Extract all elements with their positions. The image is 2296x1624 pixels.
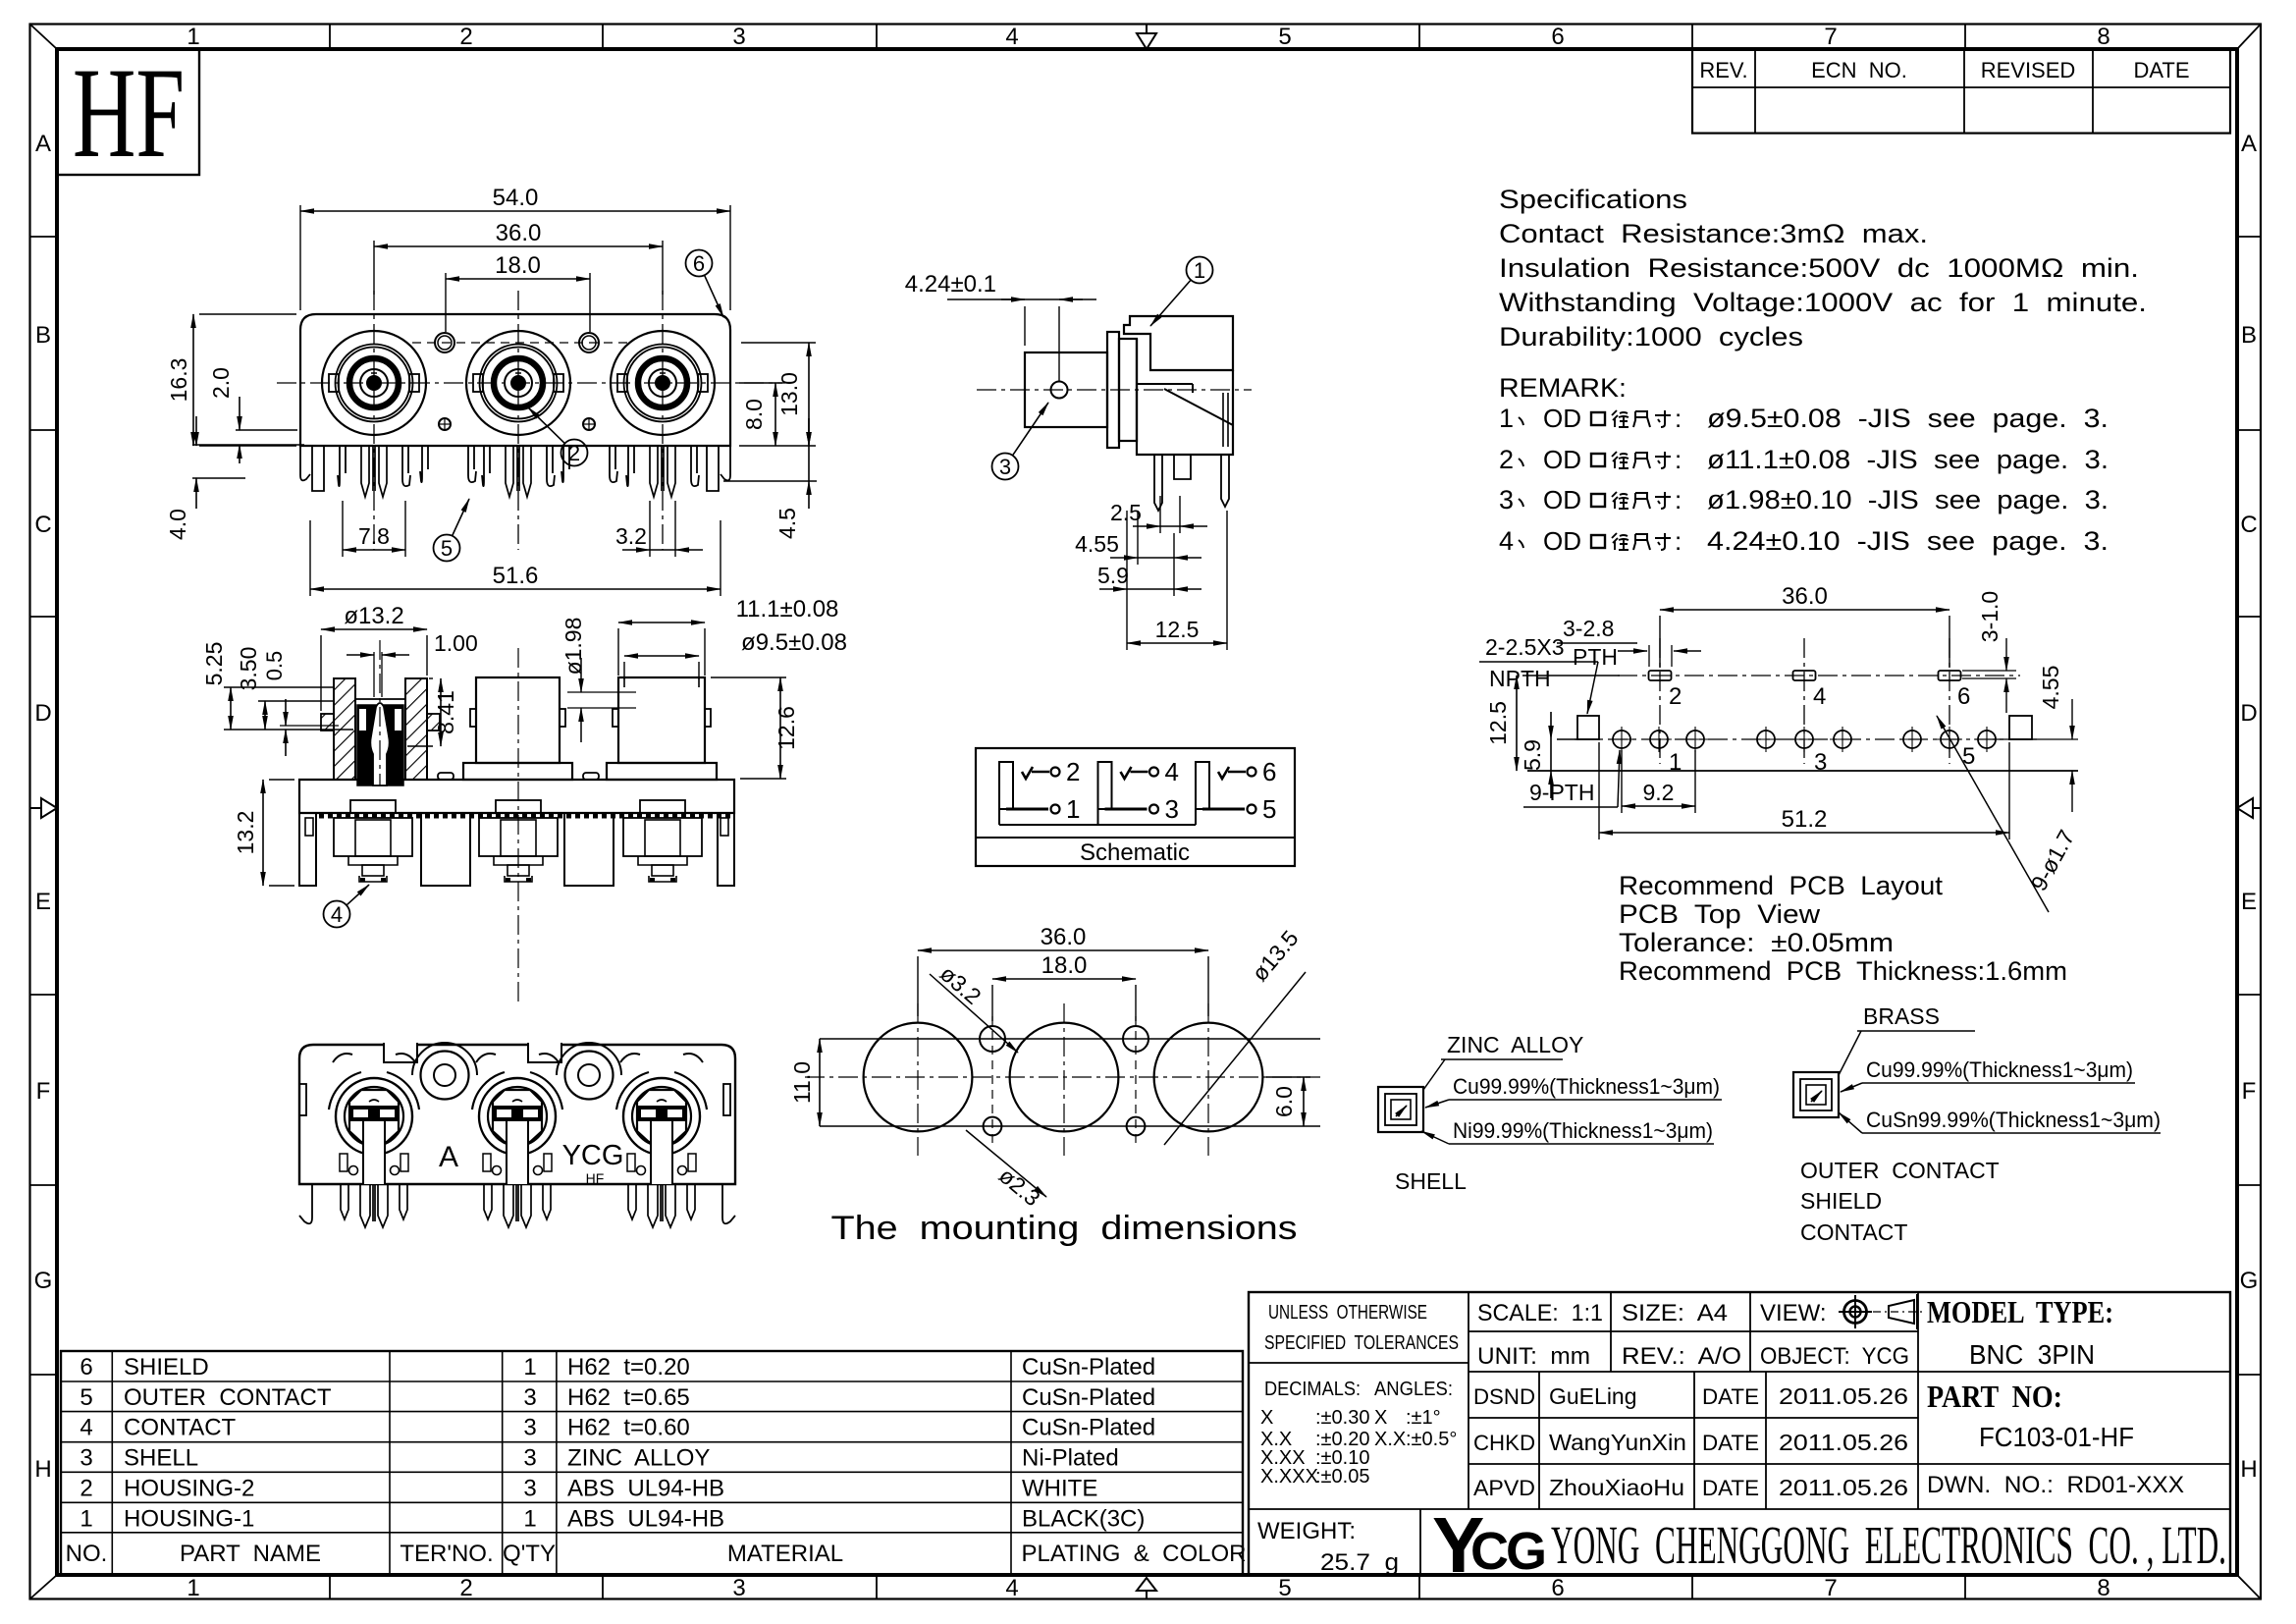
svg-text:HF: HF: [73, 40, 185, 185]
svg-text:2011.05.26: 2011.05.26: [1779, 1475, 1908, 1500]
svg-text:2.0: 2.0: [208, 367, 234, 399]
svg-text:13.2: 13.2: [233, 811, 258, 855]
svg-text:ZINC ALLOY: ZINC ALLOY: [1447, 1032, 1583, 1057]
svg-text:CG: CG: [1470, 1522, 1544, 1581]
svg-text::±0.30: :±0.30: [1315, 1407, 1369, 1429]
section view shield can 2: [479, 800, 558, 882]
mounting circle 1 vertical centerline: [917, 1003, 919, 1156]
mounting dimension 18.0: [992, 952, 1136, 1021]
svg-text:12.6: 12.6: [774, 706, 799, 750]
svg-text:MODEL TYPE:: MODEL TYPE:: [1927, 1294, 2113, 1329]
schematic jack 1 pins 1-2: [999, 757, 1080, 824]
svg-text:2: 2: [80, 1475, 92, 1501]
top view BNC port 3: [611, 331, 715, 435]
svg-text:5.9: 5.9: [1520, 739, 1545, 771]
remark line 2 OD aperture size: [1499, 445, 2109, 474]
svg-text:UNLESS OTHERWISE: UNLESS OTHERWISE: [1268, 1302, 1427, 1324]
svg-text:3: 3: [80, 1445, 92, 1472]
top view mounting hole d3.2 at x600: [579, 333, 599, 352]
section view barrel 1 centerline: [379, 640, 381, 785]
svg-text:DECIMALS:: DECIMALS:: [1264, 1379, 1361, 1400]
svg-text:H: H: [34, 1456, 51, 1483]
svg-text:YCG: YCG: [562, 1140, 624, 1171]
svg-text:4.24±0.1: 4.24±0.1: [905, 271, 996, 298]
dimension 7.8: [343, 501, 405, 557]
side view centerline: [977, 389, 1252, 391]
svg-text:SHELL: SHELL: [124, 1445, 198, 1472]
pcb hole 8: [1937, 727, 1962, 752]
pcb slot 2: [1649, 671, 1672, 680]
svg-text:Recommend PCB Thickness:1.6m: Recommend PCB Thickness:1.6mm: [1619, 956, 2067, 986]
svg-text:8.0: 8.0: [741, 399, 767, 430]
title part no: [1927, 1379, 2134, 1452]
svg-text:5: 5: [1278, 24, 1291, 50]
pcb label 9-PTH: [1523, 750, 1620, 807]
mounting circle 3 vertical centerline: [1207, 1003, 1209, 1156]
plating diagram shell: [1378, 1032, 1722, 1194]
svg-text:SHIELD: SHIELD: [1800, 1188, 1882, 1214]
title company name: [1432, 1501, 2226, 1589]
svg-text:18.0: 18.0: [495, 252, 541, 279]
title unit rev object: [1477, 1343, 1909, 1370]
svg-text:SIZE: A4: SIZE: A4: [1622, 1300, 1728, 1326]
svg-text:OD: OD: [1543, 526, 1581, 556]
svg-text:HOUSING-1: HOUSING-1: [124, 1505, 254, 1532]
svg-text:1: 1: [523, 1354, 536, 1380]
svg-text:ZINC ALLOY: ZINC ALLOY: [567, 1445, 710, 1472]
svg-text:3: 3: [523, 1415, 536, 1441]
rear view port shell 2: [472, 1054, 562, 1184]
svg-text:1: 1: [1066, 794, 1080, 824]
svg-text:OUTER CONTACT: OUTER CONTACT: [124, 1384, 332, 1411]
dimension d1.98: [561, 618, 636, 742]
parts table row 2 HOUSING-2: [80, 1475, 1097, 1501]
svg-text:51.6: 51.6: [493, 563, 539, 589]
svg-text:SPECIFIED TOLERANCES: SPECIFIED TOLERANCES: [1264, 1332, 1459, 1354]
svg-text:HOUSING-2: HOUSING-2: [124, 1475, 254, 1501]
centering arrow top: [1137, 25, 1156, 50]
rear view port shell 1: [329, 1054, 419, 1184]
pcb hole 6: [1830, 727, 1855, 752]
svg-text:1: 1: [523, 1505, 536, 1532]
balloon 1: [1150, 257, 1213, 327]
svg-text:CuSn-Plated: CuSn-Plated: [1022, 1354, 1155, 1380]
dimension 13.0: [739, 343, 816, 446]
mounting big circle 1: [864, 1023, 973, 1132]
svg-text:ø1.98: ø1.98: [561, 618, 586, 676]
svg-text:Recommend PCB Layout: Recommend PCB Layout: [1619, 871, 1944, 900]
svg-text:36.0: 36.0: [1782, 583, 1828, 610]
svg-text:X.XXX: X.XXX: [1260, 1466, 1318, 1488]
svg-text:PLATING & COLOR: PLATING & COLOR: [1022, 1541, 1247, 1567]
rear view marking HF: [586, 1170, 605, 1186]
pcb layout notes: [1619, 871, 2067, 986]
top view body outline: [300, 314, 730, 446]
dimension 2.5: [1110, 496, 1207, 533]
svg-text:Ni-Plated: Ni-Plated: [1022, 1445, 1119, 1472]
section view lower housing: [299, 813, 734, 886]
svg-text:X: X: [1260, 1407, 1273, 1429]
svg-text:DATE: DATE: [1702, 1384, 1759, 1409]
svg-text:Specifications: Specifications: [1499, 185, 1687, 214]
svg-text:2011.05.26: 2011.05.26: [1779, 1383, 1908, 1409]
svg-text::±0.5°: :±0.5°: [1406, 1429, 1457, 1450]
svg-text:OD: OD: [1543, 404, 1581, 433]
dimension 5.25: [201, 642, 353, 730]
svg-text:REV.: REV.: [1699, 58, 1747, 82]
dimension 12.6: [711, 677, 799, 779]
svg-text:6: 6: [1262, 757, 1276, 786]
svg-text:DSND: DSND: [1473, 1384, 1535, 1409]
svg-text:B: B: [35, 322, 51, 349]
svg-text:MATERIAL: MATERIAL: [727, 1541, 843, 1567]
svg-text:54.0: 54.0: [493, 185, 539, 211]
pcb column centerline 3: [1949, 638, 1950, 764]
svg-text:F: F: [36, 1078, 51, 1105]
svg-text:4: 4: [1813, 683, 1826, 710]
svg-text:3: 3: [732, 1575, 745, 1601]
balloon 2: [528, 407, 588, 466]
mounting dimension 11.0: [789, 1039, 820, 1126]
svg-text:Cu99.99%(Thickness1~3μm): Cu99.99%(Thickness1~3μm): [1866, 1057, 2133, 1082]
title weight: [1257, 1518, 1399, 1576]
svg-text:13.0: 13.0: [776, 372, 802, 416]
svg-text:WEIGHT:: WEIGHT:: [1257, 1518, 1356, 1544]
svg-text:B: B: [2241, 322, 2257, 349]
svg-text:4.55: 4.55: [2038, 666, 2063, 710]
svg-text::: :: [1675, 526, 1682, 556]
top view BNC port 1: [322, 331, 426, 435]
svg-text:4.0: 4.0: [165, 509, 190, 540]
centering arrow right: [2237, 798, 2261, 818]
svg-text:CuSn-Plated: CuSn-Plated: [1022, 1384, 1155, 1411]
schematic jack 2 pins 3-4: [1098, 757, 1179, 824]
specifications text block: [1499, 185, 2147, 352]
mounting label d2.3: [966, 1130, 1046, 1211]
dimension 4.0: [165, 416, 304, 540]
pcb label 2-2.5X3 NPTH: [1479, 634, 1598, 714]
svg-text:3: 3: [1165, 794, 1179, 824]
pcb dimension 4.55: [1993, 666, 2078, 812]
svg-text:A: A: [35, 131, 51, 157]
svg-text:SHIELD: SHIELD: [124, 1354, 209, 1380]
svg-text:ZhouXiaoHu: ZhouXiaoHu: [1549, 1475, 1684, 1500]
svg-text:Durability:1000 cycles: Durability:1000 cycles: [1499, 322, 1803, 352]
svg-text:2: 2: [1499, 445, 1514, 474]
mounting dimension 36.0: [918, 924, 1208, 1016]
dimension 3.2: [615, 501, 703, 557]
svg-text:PTH: PTH: [1573, 644, 1618, 670]
svg-text:BNC 3PIN: BNC 3PIN: [1969, 1339, 2095, 1370]
title apvd row: [1473, 1475, 1908, 1500]
svg-text:Ni99.99%(Thickness1~3μm): Ni99.99%(Thickness1~3μm): [1453, 1118, 1713, 1143]
pcb hole 5: [1791, 727, 1817, 752]
svg-text:6.0: 6.0: [1271, 1086, 1297, 1117]
svg-text:3: 3: [1499, 485, 1514, 514]
dimension 2.0: [208, 367, 297, 463]
mounting bottom reference line: [820, 1125, 1320, 1127]
svg-text:5: 5: [441, 536, 453, 561]
top view mounting hole d3.2 at x453: [435, 333, 454, 352]
svg-text:36.0: 36.0: [1041, 924, 1087, 950]
svg-text:2: 2: [1066, 757, 1080, 786]
section view barrel 2: [463, 677, 572, 780]
parts table row 3 SHELL: [80, 1445, 1118, 1472]
svg-text:9.2: 9.2: [1643, 780, 1675, 805]
dimension 0.5: [262, 651, 339, 756]
svg-text:A: A: [2241, 131, 2257, 157]
pcb label 3-2.8 PTH: [1557, 616, 1701, 670]
svg-text:12.5: 12.5: [1485, 701, 1511, 745]
svg-text:DATE: DATE: [1702, 1476, 1759, 1500]
svg-text:Q'TY: Q'TY: [503, 1541, 556, 1567]
pcb hole 4: [1753, 727, 1779, 752]
top view small hole d2.3 at x453: [439, 418, 451, 430]
pcb hole 9: [1974, 727, 2000, 752]
svg-text::±1°: :±1°: [1406, 1407, 1441, 1429]
top view port 2 vertical centerline: [517, 291, 519, 550]
svg-text:ø1.98±0.10 -JIS see page.: ø1.98±0.10 -JIS see page. 3.: [1707, 485, 2109, 514]
svg-text:UNIT: mm: UNIT: mm: [1477, 1343, 1590, 1370]
svg-text:7: 7: [1824, 1575, 1837, 1601]
svg-text:ø13.2: ø13.2: [344, 603, 403, 629]
svg-text:4.24±0.10 -JIS see page. 3: 4.24±0.10 -JIS see page. 3.: [1707, 526, 2109, 556]
title block grid: [1249, 1292, 2230, 1575]
pcb board edge line: [1527, 770, 2078, 772]
pcb slot 6: [1939, 671, 1961, 680]
svg-text:3.2: 3.2: [615, 523, 647, 549]
svg-text:4.5: 4.5: [774, 508, 800, 539]
plating diagram brass: [1793, 1003, 2161, 1245]
mounting hole column centerline x1011: [991, 1016, 993, 1149]
svg-text:2: 2: [1669, 683, 1682, 710]
svg-text:36.0: 36.0: [496, 220, 542, 246]
svg-text:BLACK(3C): BLACK(3C): [1022, 1505, 1145, 1532]
balloon 4: [324, 885, 370, 928]
remark heading: [1499, 373, 1627, 403]
dimension 8.41: [407, 678, 458, 746]
section view shield can 1: [334, 800, 412, 882]
svg-text:REV.: A/O: REV.: A/O: [1622, 1343, 1741, 1370]
svg-text:5: 5: [1962, 743, 1975, 770]
svg-text:6: 6: [693, 251, 705, 276]
svg-text:E: E: [2241, 889, 2257, 915]
parts table row 6 SHIELD: [80, 1354, 1155, 1380]
dimension 4.55: [1075, 511, 1201, 565]
svg-text:HF: HF: [586, 1170, 605, 1186]
svg-text:4: 4: [1005, 1575, 1018, 1601]
svg-text:The mounting dimensions: The mounting dimensions: [831, 1210, 1298, 1247]
svg-text:OD: OD: [1543, 445, 1581, 474]
svg-text:DWN. NO.: RD01-XXX: DWN. NO.: RD01-XXX: [1927, 1472, 2184, 1498]
svg-text:YONG CHENGGONG ELECTRONICS: YONG CHENGGONG ELECTRONICS CO. , LTD.: [1551, 1515, 2226, 1575]
svg-text:11.1±0.08: 11.1±0.08: [736, 596, 839, 623]
pcb dimension 3-1.0: [1962, 591, 2016, 713]
svg-text:ø11.1±0.08 -JIS see page.: ø11.1±0.08 -JIS see page. 3.: [1707, 445, 2109, 474]
svg-text:5: 5: [80, 1384, 92, 1411]
svg-text:OUTER CONTACT: OUTER CONTACT: [1800, 1158, 2000, 1183]
svg-text:4: 4: [1499, 526, 1514, 556]
svg-text:1: 1: [1499, 404, 1514, 433]
svg-text:7: 7: [1824, 24, 1837, 50]
dimension 4.5: [723, 418, 817, 539]
mounting label d13.5: [1164, 925, 1306, 1145]
svg-text:ø9.5±0.08 -JIS see page. 3: ø9.5±0.08 -JIS see page. 3.: [1707, 404, 2109, 433]
svg-text:CuSn99.99%(Thickness1~3μm): CuSn99.99%(Thickness1~3μm): [1866, 1108, 2161, 1132]
dimension 3.50: [236, 647, 334, 730]
dimension 11.1+-0.08: [618, 596, 838, 676]
svg-text:1: 1: [1194, 258, 1205, 283]
svg-text:ABS UL94-HB: ABS UL94-HB: [567, 1505, 724, 1532]
svg-text:E: E: [35, 889, 51, 915]
parts table header: [66, 1541, 1247, 1567]
dimension d13.2: [321, 603, 427, 711]
svg-text:6: 6: [80, 1354, 92, 1380]
balloon 6: [686, 250, 724, 318]
mounting label d3.2: [930, 960, 1018, 1053]
svg-text:11.0: 11.0: [789, 1061, 815, 1104]
parts table row 5 OUTER CONTACT: [80, 1384, 1155, 1411]
revision table: [1692, 49, 2230, 134]
rear view body outline: [299, 1043, 735, 1184]
rear view marking A: [439, 1141, 458, 1173]
svg-text:REMARK:: REMARK:: [1499, 373, 1627, 403]
pcb dimension 36.0: [1660, 583, 1949, 668]
pcb hole 7: [1899, 727, 1925, 752]
pcb dimension 12.5: [1485, 676, 1620, 771]
svg-text:H62 t=0.60: H62 t=0.60: [567, 1415, 690, 1441]
balloon 5: [434, 499, 470, 562]
pcb hole 3: [1682, 727, 1708, 752]
svg-text:SHELL: SHELL: [1395, 1168, 1467, 1194]
pcb dimension 51.2: [1599, 742, 2009, 839]
remark line 4 OD aperture size: [1499, 526, 2109, 556]
svg-text:9-PTH: 9-PTH: [1529, 780, 1594, 805]
section view shield can 3: [623, 800, 702, 882]
svg-text:ø9.5±0.08: ø9.5±0.08: [741, 629, 847, 656]
centering arrow bottom: [1137, 1578, 1156, 1599]
svg-text:H62 t=0.20: H62 t=0.20: [567, 1354, 690, 1380]
dimension d9.5+-0.08: [624, 629, 847, 679]
svg-text:CONTACT: CONTACT: [124, 1415, 237, 1441]
svg-text:Tolerance: ±0.05mm: Tolerance: ±0.05mm: [1619, 928, 1894, 957]
mounting big circle 2: [1010, 1023, 1119, 1132]
svg-text:51.2: 51.2: [1782, 806, 1828, 833]
svg-text:FC103-01-HF: FC103-01-HF: [1979, 1422, 2134, 1452]
svg-text:D: D: [2240, 700, 2257, 727]
pcb column centerline 2: [1803, 638, 1805, 764]
section view barrel 1 sectioned: [321, 678, 440, 785]
mounting small hole bottom x1011: [984, 1117, 1002, 1136]
top view upper hole centerline: [412, 342, 628, 344]
svg-text:CuSn-Plated: CuSn-Plated: [1022, 1415, 1155, 1441]
centering arrow left: [30, 798, 58, 818]
svg-text:CHKD: CHKD: [1473, 1431, 1535, 1455]
svg-text:Schematic: Schematic: [1080, 839, 1190, 866]
top view BNC port 2: [466, 331, 570, 435]
rear view boss hole 1: [412, 1043, 477, 1100]
HF logo box: [57, 49, 199, 175]
top view port 1 vertical centerline: [373, 291, 375, 550]
svg-text:X.X: X.X: [1374, 1429, 1406, 1450]
svg-text:1: 1: [80, 1505, 92, 1532]
pcb pad numbers: [1669, 683, 1975, 776]
svg-text:WangYunXin: WangYunXin: [1549, 1430, 1686, 1455]
pcb slot 4: [1793, 671, 1816, 680]
svg-text:WHITE: WHITE: [1022, 1475, 1097, 1501]
svg-text:3: 3: [523, 1445, 536, 1472]
svg-text:C: C: [2240, 512, 2257, 538]
svg-text:ABS UL94-HB: ABS UL94-HB: [567, 1475, 724, 1501]
dimension 36.0: [374, 220, 663, 295]
svg-text:16.3: 16.3: [166, 358, 191, 403]
svg-text:12.5: 12.5: [1155, 617, 1200, 642]
side view connector body: [1025, 316, 1233, 455]
svg-text:5.9: 5.9: [1097, 563, 1129, 588]
mounting dimension 6.0: [1266, 1077, 1310, 1126]
rear view boss hole 2: [557, 1043, 621, 1100]
top view small hole d2.3 at x600: [583, 418, 595, 430]
svg-text:PART NO:: PART NO:: [1927, 1379, 2062, 1414]
svg-text:3-2.8: 3-2.8: [1563, 616, 1614, 641]
dimension 18.0: [446, 252, 590, 332]
dimension 8.0: [739, 383, 782, 446]
schematic box: [976, 748, 1295, 866]
title dsnd row: [1473, 1383, 1908, 1409]
svg-text:2-2.5X3: 2-2.5X3: [1485, 634, 1565, 660]
dimension 4.24+-0.1: [905, 271, 1096, 381]
pcb hole 2: [1646, 727, 1672, 752]
svg-text:VIEW:: VIEW:: [1760, 1300, 1827, 1326]
title tolerances heading: [1264, 1302, 1459, 1354]
svg-text:25.7 g: 25.7 g: [1320, 1549, 1399, 1576]
schematic jack 3 pins 5-6: [1196, 757, 1276, 824]
rear view legs: [299, 1184, 735, 1227]
mounting big circle 3: [1154, 1023, 1263, 1132]
parts table grid: [61, 1351, 1243, 1575]
parts table row 4 CONTACT: [80, 1415, 1155, 1441]
pcb hole centerline horizontal: [1575, 738, 2039, 740]
balloon 3: [992, 403, 1049, 480]
svg-text:7.8: 7.8: [358, 523, 390, 549]
parts table row 1 HOUSING-1: [80, 1505, 1145, 1532]
svg-text:8: 8: [2097, 1575, 2109, 1601]
svg-text::: :: [1675, 445, 1682, 474]
svg-text:APVD: APVD: [1473, 1476, 1535, 1500]
svg-text:4: 4: [1005, 24, 1018, 50]
svg-text:0.5: 0.5: [262, 651, 287, 681]
dimension 12.5: [1127, 511, 1227, 650]
title view symbols: [1839, 1294, 1922, 1329]
mounting small hole bottom x1157: [1127, 1117, 1146, 1136]
svg-text:SCALE: 1:1: SCALE: 1:1: [1477, 1300, 1603, 1326]
svg-text:1: 1: [187, 1575, 199, 1601]
section view shield tabs on base: [438, 773, 599, 780]
svg-text::: :: [1675, 404, 1682, 433]
svg-text:ECN NO.: ECN NO.: [1811, 58, 1907, 82]
svg-text:CONTACT: CONTACT: [1800, 1219, 1907, 1245]
svg-text:5.25: 5.25: [201, 642, 227, 686]
svg-text:6: 6: [1957, 683, 1970, 710]
svg-text::: :: [1675, 485, 1682, 514]
svg-text:G: G: [2240, 1268, 2259, 1294]
dimension 51.6: [310, 520, 721, 596]
side view pins: [1154, 455, 1229, 511]
svg-text:Withstanding Voltage:1000V a: Withstanding Voltage:1000V ac for 1 minu…: [1499, 288, 2147, 317]
top view port 3 vertical centerline: [662, 291, 664, 550]
svg-text:1.00: 1.00: [434, 630, 478, 656]
svg-text:H: H: [2240, 1456, 2257, 1483]
